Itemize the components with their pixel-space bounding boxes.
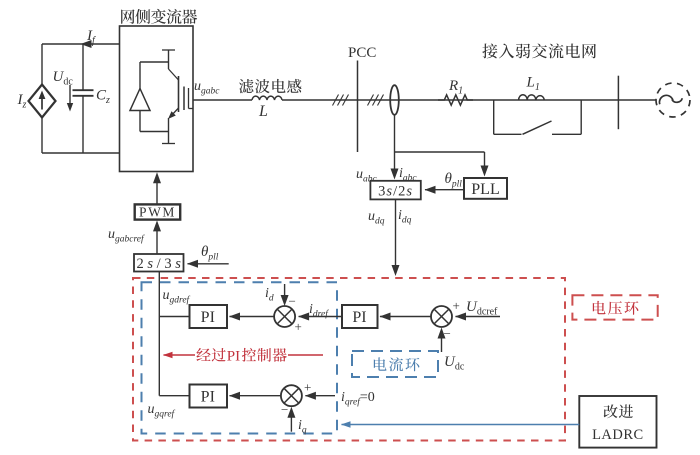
box 2s/3s <box>134 254 184 272</box>
box 3s/2s <box>370 181 420 200</box>
arrow i_q <box>290 410 292 432</box>
svg-text:PCC: PCC <box>348 45 376 61</box>
svg-text:LADRC: LADRC <box>592 427 644 443</box>
IGBT gate lead <box>188 88 190 109</box>
box PI q-current <box>190 385 228 408</box>
wire U_dcref <box>456 316 501 318</box>
box LADRC <box>579 396 656 448</box>
arrow I_f <box>81 40 92 48</box>
IGBT emitter stub <box>168 132 170 144</box>
blue arrow LADRC to current loop <box>342 424 580 426</box>
inductor L <box>252 96 282 100</box>
wire <box>299 316 342 318</box>
arrow into converter <box>156 176 158 205</box>
label 电压环 <box>593 301 606 314</box>
wire <box>82 96 84 153</box>
wire <box>41 118 43 153</box>
svg-text:−: − <box>444 326 451 341</box>
red annotation line <box>288 354 323 356</box>
current source I_z <box>29 85 56 118</box>
wire <box>41 44 43 84</box>
sum junction d <box>274 306 295 327</box>
label 改进 <box>604 404 618 418</box>
wire U_dc <box>441 331 443 352</box>
arrow into PWM <box>156 223 158 254</box>
svg-text:PWM: PWM <box>139 204 176 219</box>
svg-text:PI: PI <box>201 309 215 326</box>
grid bus bar <box>617 76 619 130</box>
wire <box>42 152 120 154</box>
label 滤波电感 <box>239 79 254 93</box>
arrow i_d <box>284 284 286 303</box>
wire bus <box>158 272 160 396</box>
wire <box>193 99 252 101</box>
IGBT channel bar <box>178 76 180 112</box>
svg-text:+: + <box>453 298 460 313</box>
wire <box>394 152 396 176</box>
wire <box>82 44 84 90</box>
wire i_qref <box>305 395 335 397</box>
label 接入弱交流电网 <box>482 43 497 58</box>
voltage loop tag box <box>572 295 657 319</box>
svg-text:+: + <box>295 319 302 334</box>
red annotation arrow <box>164 354 196 356</box>
wire <box>42 43 120 45</box>
wire <box>395 199 397 272</box>
svg-text:L: L <box>258 103 268 120</box>
box PWM <box>135 204 181 219</box>
voltage loop red dashed box <box>133 278 565 441</box>
label 电流环 <box>374 357 387 370</box>
inductor L1 <box>519 95 545 100</box>
box PI voltage <box>342 305 378 328</box>
svg-text:PI: PI <box>352 309 366 326</box>
svg-text:+: + <box>304 380 311 395</box>
label 经过PI控制器 <box>196 348 210 361</box>
box PI d-current <box>190 305 228 328</box>
converter box <box>120 26 194 172</box>
arrow U_dc <box>69 85 71 108</box>
wire <box>139 111 141 132</box>
current loop blue dashed box <box>142 282 338 433</box>
wire <box>484 152 486 173</box>
box PLL <box>464 178 507 199</box>
svg-text:3s/2s: 3s/2s <box>378 184 413 200</box>
current loop tag box <box>352 351 438 377</box>
IGBT gate bar <box>183 87 185 111</box>
wire <box>425 189 464 191</box>
wire theta to 2s/3s <box>188 263 229 265</box>
svg-text:PI: PI <box>201 389 215 406</box>
wire <box>230 395 281 397</box>
svg-text:PI: PI <box>227 349 240 365</box>
three-phase slashes <box>368 95 374 106</box>
wire <box>159 395 189 397</box>
IGBT collector <box>162 49 175 51</box>
wire <box>230 316 275 318</box>
sum junction v <box>431 306 452 327</box>
svg-text:2 s / 3 s: 2 s / 3 s <box>137 256 182 272</box>
bypass switch loop <box>493 100 495 134</box>
label 网侧变流器 <box>121 9 134 23</box>
svg-text:−: − <box>281 402 288 417</box>
sum junction q <box>281 385 302 406</box>
wire <box>395 151 485 153</box>
IGBT emitter <box>170 108 179 117</box>
wire <box>159 316 189 318</box>
wire <box>282 99 656 101</box>
wire <box>380 316 431 318</box>
capacitor C_z <box>73 89 94 91</box>
PCC bus bar <box>357 61 359 153</box>
three-phase slashes <box>333 95 339 106</box>
wire <box>139 62 141 89</box>
AC grid source <box>656 83 690 117</box>
sensor ellipse <box>390 85 399 115</box>
wire <box>394 115 396 152</box>
diode triangle <box>130 89 150 111</box>
resistor R1 <box>438 95 473 105</box>
svg-text:PLL: PLL <box>471 181 499 198</box>
svg-text:−: − <box>289 294 296 309</box>
